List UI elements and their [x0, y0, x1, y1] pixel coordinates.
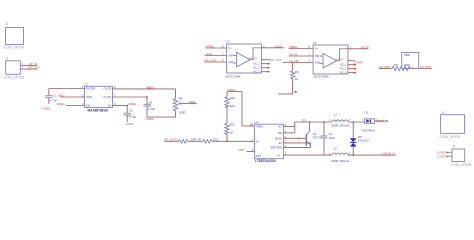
svg-text:VOUT: VOUT — [275, 44, 283, 48]
svg-text:D1: D1 — [365, 111, 369, 115]
svg-text:100R: 100R — [179, 111, 186, 115]
svg-text:TP1: TP1 — [302, 118, 307, 122]
svg-text:C4: C4 — [149, 101, 153, 105]
svg-text:VREG: VREG — [256, 124, 263, 128]
svg-text:COMP: COMP — [354, 61, 363, 65]
svg-text:RST: RST — [239, 148, 245, 152]
svg-text:SA15CA: SA15CA — [358, 139, 369, 143]
svg-text:NC_2: NC_2 — [340, 68, 347, 71]
svg-text:4.7uF: 4.7uF — [129, 115, 137, 119]
svg-text:VOUT2: VOUT2 — [336, 58, 345, 61]
svg-text:RST: RST — [256, 154, 262, 158]
svg-text:680R_500mA: 680R_500mA — [332, 124, 350, 128]
svg-text:Q1: Q1 — [313, 132, 317, 136]
svg-text:U2: U2 — [84, 82, 88, 86]
svg-text:GND: GND — [86, 95, 92, 99]
svg-text:SW: SW — [278, 131, 283, 135]
svg-text:R7: R7 — [198, 138, 202, 142]
svg-text:NC_1: NC_1 — [253, 63, 260, 66]
svg-text:VREF: VREF — [188, 100, 196, 104]
svg-text:CON_2POS: CON_2POS — [440, 135, 461, 139]
svg-text:0.1uF: 0.1uF — [148, 107, 156, 111]
svg-text:R10: R10 — [230, 96, 236, 100]
svg-text:79V/78mA: 79V/78mA — [361, 128, 375, 132]
svg-text:INM: INM — [315, 61, 320, 65]
svg-text:VA_OUT: VA_OUT — [164, 137, 176, 141]
svg-text:IN: IN — [108, 104, 111, 108]
svg-text:39R: 39R — [191, 138, 196, 142]
svg-text:UP_OUT: UP_OUT — [270, 58, 282, 62]
svg-text:VREG: VREG — [146, 85, 155, 89]
svg-text:VREG: VREG — [57, 102, 66, 106]
svg-text:EMITTER: EMITTER — [271, 145, 283, 149]
svg-text:10uF: 10uF — [328, 136, 335, 140]
svg-text:NC_3: NC_3 — [340, 72, 347, 75]
svg-text:EN: EN — [86, 104, 90, 108]
svg-text:VREG: VREG — [128, 102, 137, 106]
svg-text:CON_2POS: CON_2POS — [451, 163, 472, 167]
svg-text:V+: V+ — [228, 46, 232, 50]
svg-text:VOUT2: VOUT2 — [361, 45, 371, 49]
svg-text:LOOP_P: LOOP_P — [376, 119, 388, 123]
svg-text:GND1: GND1 — [125, 122, 133, 126]
svg-text:C1: C1 — [53, 93, 57, 97]
svg-text:NC: NC — [278, 125, 282, 129]
svg-text:GND1: GND1 — [146, 117, 154, 121]
svg-text:LOOP_N: LOOP_N — [382, 152, 394, 156]
svg-text:LM7171MA: LM7171MA — [225, 75, 242, 79]
svg-text:INM: INM — [228, 60, 233, 64]
svg-text:LT8570A2GA: LT8570A2GA — [255, 159, 276, 163]
svg-text:LM7171MA: LM7171MA — [313, 75, 330, 79]
svg-text:V+: V+ — [315, 47, 319, 51]
svg-text:680R_500mA: 680R_500mA — [332, 159, 350, 163]
svg-text:R5: R5 — [394, 63, 398, 67]
svg-text:J2: J2 — [5, 57, 9, 61]
svg-text:U3: U3 — [226, 40, 230, 44]
svg-text:C3: C3 — [129, 109, 133, 113]
svg-text:VOUT2: VOUT2 — [249, 57, 258, 60]
svg-text:1K5: 1K5 — [213, 138, 219, 142]
svg-text:R9: R9 — [295, 70, 299, 74]
svg-text:INP: INP — [228, 54, 233, 58]
svg-text:INP: INP — [315, 54, 320, 58]
svg-text:UP_OUT: UP_OUT — [205, 59, 217, 63]
svg-text:UP_OUT: UP_OUT — [28, 66, 40, 70]
svg-text:GND1: GND1 — [43, 107, 51, 111]
svg-text:1K: 1K — [295, 77, 299, 81]
svg-text:CON_2POS: CON_2POS — [4, 75, 25, 79]
svg-text:IN: IN — [256, 139, 259, 143]
svg-text:NC_3: NC_3 — [253, 71, 260, 74]
svg-text:1K: 1K — [230, 130, 234, 134]
svg-text:VA_FB: VA_FB — [289, 59, 298, 63]
svg-text:VREG: VREG — [206, 45, 215, 49]
svg-text:R11: R11 — [230, 123, 235, 127]
svg-text:10K: 10K — [230, 104, 235, 108]
svg-text:MAX8878EUK: MAX8878EUK — [88, 109, 110, 113]
svg-text:J1: J1 — [5, 22, 9, 26]
svg-text:VA_OUT: VA_OUT — [420, 65, 432, 69]
svg-text:VREG: VREG — [289, 45, 298, 49]
svg-text:PZT/2A: PZT/2A — [313, 136, 322, 140]
svg-text:NBR: NBR — [404, 53, 410, 57]
svg-text:NC_2: NC_2 — [253, 67, 260, 70]
svg-text:OUTP: OUTP — [104, 87, 112, 91]
svg-text:VA_IN: VA_IN — [289, 53, 297, 57]
svg-text:100R: 100R — [403, 63, 409, 67]
svg-text:OUTN: OUTN — [103, 95, 111, 99]
svg-text:E1: E1 — [279, 141, 283, 145]
svg-text:J4: J4 — [452, 145, 456, 149]
svg-text:IO: IO — [277, 154, 280, 158]
svg-text:VIN2: VIN2 — [206, 52, 213, 56]
svg-text:L2: L2 — [334, 147, 338, 151]
svg-text:FILTER: FILTER — [86, 87, 95, 91]
svg-text:CON_2POS: CON_2POS — [4, 45, 25, 49]
svg-text:NC_1: NC_1 — [340, 64, 347, 67]
svg-text:L1: L1 — [334, 113, 338, 117]
svg-text:BASE: BASE — [275, 136, 282, 140]
svg-text:R4: R4 — [179, 96, 183, 100]
